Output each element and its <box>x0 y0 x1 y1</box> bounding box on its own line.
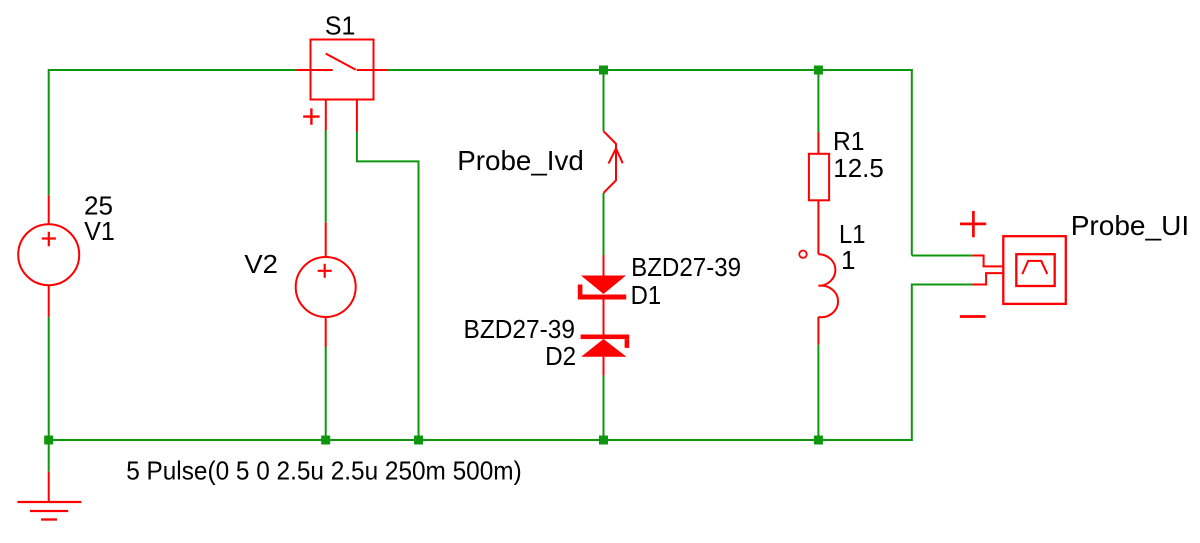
ground bar 1 <box>17 501 81 503</box>
wire D1 to D2 <box>603 300 605 335</box>
svg-text:V2: V2 <box>244 249 278 279</box>
wire S1 right return <box>356 132 419 440</box>
S1 plus polarity mark <box>303 108 319 124</box>
S1 control pin minus <box>356 100 358 132</box>
L1 phase dot <box>799 251 806 258</box>
R1 pin top <box>817 132 819 154</box>
wire right vertical lower <box>911 284 913 442</box>
L1 winding arcs <box>818 254 838 317</box>
wire bottom rail <box>49 439 913 441</box>
V2 plus mark <box>318 264 332 278</box>
S1 pin left <box>296 69 332 71</box>
probe plus symbol <box>960 211 986 237</box>
wire rail to current probe <box>603 70 605 131</box>
wire rail to R1 <box>817 70 819 132</box>
wire probe minus lead <box>912 284 973 286</box>
svg-text:BZD27-39: BZD27-39 <box>464 314 576 344</box>
ground pin <box>48 472 50 501</box>
ground <box>17 472 81 520</box>
D1 cathode bar <box>578 295 626 300</box>
V2 circle <box>296 257 356 317</box>
switch S1 <box>296 40 388 132</box>
V1 pin top <box>48 195 50 224</box>
Probe_UI waveform glyph <box>1022 261 1047 274</box>
D2 zener tab <box>625 339 630 348</box>
svg-text:V1: V1 <box>84 216 115 246</box>
svg-text:5 Pulse(0 5 0 2.5u 2.5u 250m 5: 5 Pulse(0 5 0 2.5u 2.5u 250m 500m) <box>126 456 522 486</box>
R1 body <box>809 154 829 201</box>
node junction bottom S1 return <box>414 436 423 445</box>
probe minus symbol <box>960 315 986 318</box>
svg-text:D1: D1 <box>631 280 662 310</box>
wire V2 bottom <box>325 347 327 440</box>
R1 pin bottom <box>817 200 819 254</box>
svg-text:1: 1 <box>841 245 855 275</box>
svg-text:12.5: 12.5 <box>833 153 884 183</box>
node junction top R1 branch <box>814 66 823 75</box>
S1 control pin plus <box>325 100 327 131</box>
wire S1 left pin to V2 <box>325 130 327 222</box>
wire D2 to rail <box>603 376 605 441</box>
D2 triangle <box>581 339 626 357</box>
D1 triangle <box>581 276 626 295</box>
node junction bottom V2 <box>321 436 330 445</box>
wire L1 to rail <box>817 345 819 440</box>
wire left vertical top <box>48 69 50 195</box>
wire D2 bottom pin <box>603 357 605 376</box>
svg-text:D2: D2 <box>545 341 576 371</box>
Probe_UI minus pin <box>972 273 1003 284</box>
S1 body box <box>311 40 374 100</box>
svg-text:Probe_Ivd: Probe_Ivd <box>457 145 584 176</box>
node junction bottom L1 branch <box>814 436 823 445</box>
svg-text:Probe_UI: Probe_UI <box>1071 210 1190 241</box>
zener diode D1 <box>578 276 626 300</box>
ground bar 3 <box>41 518 57 520</box>
V1 plus mark <box>42 232 56 247</box>
probe Probe_UI box <box>1003 236 1066 304</box>
wire probe plus lead <box>912 255 973 257</box>
svg-text:BZD27-39: BZD27-39 <box>631 252 741 282</box>
wire top rail right <box>388 69 913 71</box>
S1 lever <box>326 54 356 70</box>
ground bar 2 <box>30 510 68 512</box>
L1 pin bottom <box>817 317 819 345</box>
zener diode D2 <box>581 335 630 357</box>
wire ground drop <box>48 440 50 472</box>
Probe_UI screen box <box>1016 254 1054 286</box>
voltage source V1 <box>18 195 79 316</box>
wire D1 top pin <box>603 255 605 276</box>
svg-text:S1: S1 <box>325 11 356 41</box>
wire right vertical upper <box>911 69 913 256</box>
wire top rail left <box>49 69 297 71</box>
S1 pin right <box>357 69 388 71</box>
node junction top diode branch <box>599 66 608 75</box>
Probe_UI outer box <box>1003 236 1066 304</box>
V1 pin bottom <box>48 285 50 317</box>
D1 zener tab <box>578 285 583 295</box>
inductor L1 <box>799 251 838 345</box>
Probe_Ivd arrow shaft <box>604 131 617 193</box>
D2 cathode bar <box>581 335 630 340</box>
node junction bottom diode branch <box>599 436 608 445</box>
V1 circle <box>18 224 79 285</box>
V2 pin top <box>325 222 327 257</box>
current probe Probe_Ivd <box>604 131 623 193</box>
V2 pin bottom <box>325 317 327 347</box>
resistor R1 <box>809 132 829 254</box>
Probe_UI plus pin <box>972 256 1003 267</box>
wire probe to D1 <box>603 193 605 255</box>
svg-text:R1: R1 <box>833 126 865 156</box>
node junction bottom ground <box>44 436 53 445</box>
voltage source V2 <box>296 222 356 347</box>
Probe_Ivd arrow head <box>609 149 623 164</box>
probe Probe_UI leads <box>972 256 1003 285</box>
wire left vertical bottom <box>48 317 50 440</box>
